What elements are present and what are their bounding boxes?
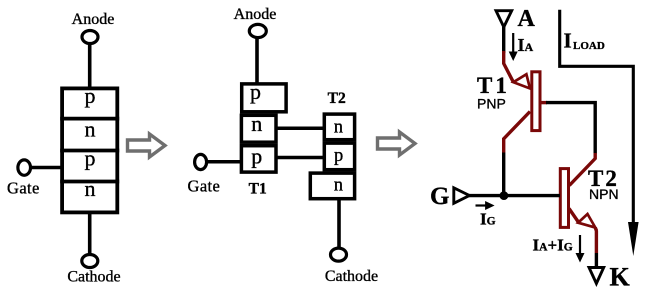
transistor T2 base bar bbox=[560, 169, 568, 228]
svg-text:LOAD: LOAD bbox=[573, 40, 605, 52]
wire gate to T1 stack (middle) bbox=[207, 160, 242, 164]
svg-text:p: p bbox=[85, 83, 96, 108]
T1 collector diagonal (red) bbox=[504, 112, 530, 153]
svg-text:A: A bbox=[518, 6, 536, 32]
wire G to T2 base bbox=[469, 194, 560, 197]
layer divider n-p (left) bbox=[60, 149, 119, 153]
cathode terminal circle (middle) bbox=[331, 248, 347, 261]
svg-text:n: n bbox=[334, 118, 343, 138]
pnpn stack outline (left) bbox=[62, 88, 117, 212]
svg-text:n: n bbox=[334, 176, 343, 196]
T1 emitter arrowhead bbox=[513, 74, 530, 88]
svg-text:n: n bbox=[85, 176, 96, 201]
link wire n-n bbox=[277, 126, 323, 130]
wire A red segment to T1 emitter bbox=[504, 51, 514, 82]
T1 box p (bottom) bbox=[241, 146, 276, 172]
wire gate to stack (left) bbox=[31, 166, 62, 170]
terminal K triangle bbox=[589, 268, 604, 284]
svg-text:Cathode: Cathode bbox=[67, 269, 120, 286]
svg-text:n: n bbox=[85, 117, 96, 142]
wire T1 collector down to gate node (black) bbox=[502, 153, 505, 197]
anode terminal circle (left) bbox=[82, 31, 98, 44]
svg-text:Gate: Gate bbox=[7, 178, 40, 197]
svg-text:T1: T1 bbox=[249, 180, 267, 197]
svg-text:p: p bbox=[250, 79, 261, 104]
load line wire bbox=[560, 10, 634, 223]
svg-text:Anode: Anode bbox=[234, 6, 277, 23]
wire anode to stack (left) bbox=[88, 44, 92, 89]
svg-text:Cathode: Cathode bbox=[325, 268, 378, 285]
block arrow 2 bbox=[378, 132, 416, 155]
T2 box p bbox=[324, 143, 354, 170]
svg-text:K: K bbox=[610, 263, 631, 292]
gate terminal circle (middle) bbox=[195, 154, 207, 169]
load arrowhead (solid) bbox=[628, 222, 639, 256]
wire anode to T1 stack (middle) bbox=[255, 38, 259, 85]
svg-text:G: G bbox=[430, 183, 449, 210]
cathode terminal circle (left) bbox=[82, 255, 98, 268]
T1 box p (top, wide) bbox=[242, 84, 286, 112]
wire T1 base to T2 collector (black) bbox=[546, 103, 595, 154]
layer divider p-n (left lower) bbox=[60, 180, 119, 184]
layer divider p-n (left) bbox=[60, 117, 119, 121]
terminal A triangle bbox=[496, 11, 512, 27]
svg-text:I: I bbox=[564, 29, 572, 53]
svg-text:p: p bbox=[85, 146, 96, 171]
wire to K (black part) bbox=[595, 253, 598, 268]
svg-text:Gate: Gate bbox=[188, 176, 221, 195]
T2 box n (bottom, wide) bbox=[310, 173, 354, 199]
junction node dot bbox=[500, 191, 509, 200]
current arrow IA bbox=[509, 33, 518, 61]
current arrow IA+IG down bbox=[576, 235, 585, 263]
transistor T1 base bar bbox=[532, 72, 540, 131]
svg-text:PNP: PNP bbox=[477, 96, 506, 112]
block arrow 1 bbox=[128, 134, 166, 157]
wire A down (black) bbox=[502, 27, 505, 53]
svg-text:T2: T2 bbox=[328, 90, 346, 107]
link wire p-p bbox=[277, 156, 323, 160]
current arrow IG bbox=[476, 201, 495, 210]
gate terminal circle (left) bbox=[18, 160, 31, 175]
svg-text:p: p bbox=[251, 143, 262, 168]
T1 box n bbox=[241, 115, 276, 142]
svg-text:p: p bbox=[334, 146, 343, 166]
T1 base red stub bbox=[541, 101, 547, 104]
T2 box n (top) bbox=[324, 114, 354, 140]
T2 collector diagonal (red) bbox=[569, 153, 595, 186]
T2 emitter diagonal (red) bbox=[569, 209, 579, 224]
T2 emitter arrowhead bbox=[578, 214, 595, 228]
terminal G triangle bbox=[454, 188, 470, 204]
svg-text:n: n bbox=[251, 111, 262, 136]
svg-text:Anode: Anode bbox=[72, 11, 115, 28]
wire T2 emitter to K (red part) bbox=[595, 228, 596, 254]
anode terminal circle (middle) bbox=[249, 24, 266, 37]
wire T2 stack to cathode (middle) bbox=[337, 200, 341, 249]
svg-text:NPN: NPN bbox=[589, 186, 619, 202]
svg-text:T1: T1 bbox=[477, 73, 510, 98]
wire stack to cathode (left) bbox=[88, 212, 92, 255]
